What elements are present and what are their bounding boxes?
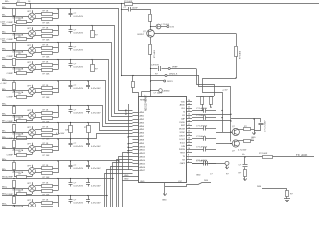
wire U5 top stub (32, 85, 34, 88)
resistor R5d comp (17, 96, 27, 99)
wire comp row ch10 (14, 194, 32, 196)
IC U20 right pin 11 (186, 135, 192, 137)
resistor R11a gain (13, 197, 16, 204)
wire IN6- row (2, 115, 29, 117)
svg-text:0.47u/16V: 0.47u/16V (74, 67, 84, 69)
wire U4 top stub (32, 61, 34, 64)
IC U20 right pin 17 (186, 156, 192, 158)
capacitor C9b (88, 161, 90, 165)
svg-text:22: 22 (188, 107, 190, 109)
svg-text:ADS1274IPAPT: ADS1274IPAPT (145, 94, 148, 111)
svg-text:R? 1K: R? 1K (43, 126, 49, 128)
wire ch3 output row (2, 42, 88, 44)
svg-text:AIN12: AIN12 (140, 152, 146, 155)
IC U20 right pin 3 (186, 108, 192, 110)
wire bus line 3 (88, 43, 133, 117)
svg-text:TX_ACK: TX_ACK (296, 153, 307, 157)
wire merge to row ch11 (53, 202, 59, 204)
resistor R9a gain (13, 163, 16, 170)
IC U20 right pin 9 (186, 128, 192, 130)
wire Q40 connections (238, 129, 243, 131)
wire U1 output lower (35, 18, 42, 20)
wire row XI to crystal area (192, 120, 231, 122)
svg-text:1uF/16V: 1uF/16V (151, 65, 159, 67)
wire comp row ch7 (14, 138, 32, 140)
op-amp U1 LPC662 (29, 13, 36, 20)
IC U20 left pin 8 (133, 136, 139, 138)
svg-text:0.47u/16V: 0.47u/16V (74, 16, 84, 18)
wire TX row (192, 156, 314, 158)
svg-text:R? 1K: R? 1K (43, 199, 49, 201)
svg-text:4.7u/16V: 4.7u/16V (56, 133, 65, 135)
wire comp stub ch2 (32, 37, 34, 39)
capacitor C31 on VREF row (151, 68, 158, 70)
svg-text:0.47u/16V: 0.47u/16V (91, 203, 101, 205)
IC U20 ADC body (139, 97, 187, 183)
IC U20 left pin 13 (133, 153, 139, 155)
node ch11 row junctions (13, 195, 14, 196)
IC U20 left pin 18 (133, 170, 139, 172)
capacitor C2a (70, 26, 72, 30)
IC U20 left pin 7 (133, 132, 139, 134)
svg-text:DRDY: DRDY (167, 81, 174, 83)
node ch3 row junctions (13, 42, 14, 43)
capacitor C51 (243, 164, 248, 166)
capacitor Cdec1 (203, 108, 205, 113)
wire IN9- row (2, 170, 29, 172)
op-amp U3 LPC662 (29, 47, 36, 54)
wire U4 output lower (35, 69, 42, 71)
wire divider mid (150, 21, 152, 30)
wire U4 output upper (35, 64, 42, 66)
node main vertical junctions (150, 68, 151, 69)
node ch2 row junctions (13, 25, 14, 26)
capacitor C8a (70, 139, 72, 143)
resistor R11b (42, 202, 53, 205)
wire U1 output upper (35, 13, 42, 15)
ground IC bottom (164, 186, 166, 192)
capacitor C5b (88, 81, 90, 85)
resistor R33 on loop (235, 47, 238, 57)
wire merge to row ch3 (53, 47, 59, 49)
resistor R51 to gnd (244, 170, 247, 177)
wire row 90 stub (151, 90, 159, 92)
node VREF terminal (168, 68, 170, 70)
svg-text:IN10-: IN10- (2, 187, 7, 189)
svg-text:0.47u/16V: 0.47u/16V (74, 88, 84, 90)
svg-text:C? 4.7u/16V: C? 4.7u/16V (265, 120, 267, 132)
svg-text:IN1-: IN1- (2, 15, 6, 17)
wire main vertical to IC (150, 54, 152, 97)
wire bus line 1 (88, 9, 133, 111)
svg-text:R? 1K: R? 1K (43, 10, 49, 12)
svg-text:COMP: COMP (7, 73, 14, 75)
ground tx filter (244, 177, 246, 181)
wire comp stub ch11 (32, 209, 34, 211)
IC U20 left pin 12 (133, 149, 139, 151)
svg-text:13: 13 (188, 138, 190, 140)
svg-text:20: 20 (188, 114, 190, 116)
wire comp row ch4 (14, 72, 32, 74)
IC U20 left pin 9 (133, 139, 139, 141)
wire comp row ch8 (14, 154, 32, 156)
wire U3 top stub (32, 44, 34, 47)
svg-text:BC857: BC857 (138, 34, 145, 36)
wire U3 output lower (35, 52, 42, 54)
svg-text:24M: 24M (257, 186, 261, 188)
capacitor C10b (88, 179, 90, 183)
resistor R5b (42, 87, 53, 90)
svg-text:IN11-: IN11- (2, 204, 7, 206)
svg-text:AGND: AGND (125, 108, 128, 115)
wire c51 to r51 (244, 167, 246, 169)
svg-text:C? 1uF/16V: C? 1uF/16V (196, 147, 208, 149)
wire merge to row ch6 (53, 112, 59, 114)
IC U20 right pin 15 (186, 149, 192, 151)
wire ch1 output row (2, 8, 88, 10)
wire top +IN rail (2, 3, 319, 5)
wire IN8- row (2, 148, 29, 150)
resistor R41 pullup (210, 97, 213, 105)
svg-text:R? 1K: R? 1K (43, 165, 49, 167)
capacitor C30 100nF branch (122, 9, 129, 11)
wire RX row cont (209, 163, 226, 165)
svg-text:+2.5V: +2.5V (222, 90, 228, 92)
svg-text:AIN11: AIN11 (140, 149, 146, 152)
IC U20 right pin 1 (186, 101, 192, 103)
node ref out terminal (167, 26, 169, 28)
svg-text:R? 10K0: R? 10K0 (240, 50, 242, 59)
svg-text:R? 1K: R? 1K (43, 182, 49, 184)
wire comp stub ch5 (32, 95, 34, 97)
svg-text:TEST: TEST (180, 153, 186, 155)
svg-text:0.47u/16V: 0.47u/16V (74, 203, 84, 205)
wire ch2 output row (2, 25, 88, 27)
node ch10 row junctions (13, 178, 14, 179)
node row 81 terminal (164, 80, 166, 82)
transistor Q40 (232, 128, 239, 135)
svg-text:R? 10K: R? 10K (43, 56, 51, 58)
svg-text:IN10+: IN10+ (2, 177, 8, 179)
wire U7 output upper (35, 129, 42, 131)
svg-text:23: 23 (188, 103, 190, 105)
capacitor C1a (70, 9, 72, 13)
svg-text:IN4+: IN4+ (2, 58, 7, 60)
svg-text:IN9-: IN9- (2, 169, 6, 171)
resistor R40 pullup (201, 97, 204, 105)
wire bus line 8 (88, 134, 133, 139)
wire merge to row ch5 (53, 88, 59, 90)
wire Q41 connections (238, 140, 243, 142)
wire comp stub ch6 (32, 119, 34, 121)
svg-text:AIN17: AIN17 (140, 169, 146, 172)
wire bus line 7 (88, 123, 133, 131)
wire U7 top stub (32, 126, 34, 129)
svg-text:CAP2: CAP2 (180, 162, 186, 165)
svg-text:GND: GND (140, 181, 145, 183)
resistor R9b (42, 167, 53, 170)
resistor R7a gain (13, 125, 16, 132)
svg-text:R? 10K: R? 10K (43, 97, 51, 99)
wire loop down to corner (236, 57, 238, 79)
resistor R43 base (244, 140, 251, 143)
svg-text:C? 100nF: C? 100nF (196, 136, 206, 138)
transistor Q30 BC857 (147, 30, 155, 38)
svg-text:IN8-: IN8- (2, 147, 6, 149)
svg-text:R? 10K: R? 10K (43, 22, 51, 24)
resistor R8a gain (13, 141, 16, 148)
svg-text:IN6-: IN6- (2, 114, 6, 116)
wire U5 output lower (35, 92, 42, 94)
IC U20 right pin 18 (186, 159, 192, 161)
wire IN2- row (2, 33, 29, 35)
svg-text:11: 11 (188, 144, 190, 146)
resistor R6b (42, 112, 53, 115)
wire loop left run (203, 79, 237, 101)
wire pullup rail (196, 96, 214, 98)
node comp junction ch11 (13, 205, 14, 206)
svg-text:10K: 10K (65, 130, 69, 132)
resistor R5a gain (13, 83, 16, 90)
svg-text:C? 1uF/16V: C? 1uF/16V (196, 108, 208, 110)
node RESET branch tap (132, 75, 133, 76)
IC U20 right pin 2 (186, 104, 192, 106)
wire RX row (192, 163, 205, 165)
svg-text:GND: GND (162, 200, 167, 202)
wire bus line 2 (88, 26, 133, 114)
IC U20 right pin 19 (186, 162, 192, 164)
capacitor Cdec4 (203, 136, 205, 141)
node C6b junction (87, 105, 88, 106)
wire comp stub ch9 (32, 175, 34, 177)
svg-text:2.5V: 2.5V (170, 26, 175, 28)
wire merge to row ch7 (53, 129, 59, 131)
wire row to transistor q2 (216, 143, 232, 145)
resistor R2b (42, 30, 53, 33)
IC U20 left pin 1 (133, 112, 139, 114)
svg-text:GND: GND (124, 175, 129, 177)
IC U20 left pin 5 (133, 125, 139, 127)
resistor R7c (42, 134, 53, 137)
wire U11 output lower (35, 207, 42, 209)
node comp junction ch7 (13, 132, 14, 133)
wire comp row ch5 (14, 96, 32, 98)
svg-text:C? 1uF/16V: C? 1uF/16V (196, 126, 208, 128)
node comp junction ch10 (13, 188, 14, 189)
svg-text:C? 100nF: C? 100nF (154, 93, 164, 95)
svg-text:SCLK: SCLK (180, 142, 186, 144)
resistor R8b (42, 145, 53, 148)
svg-text:IN5+: IN5+ (2, 79, 7, 81)
node top-rail junctions (29, 3, 30, 4)
IC U20 left pin 11 (133, 146, 139, 148)
capacitor C11b (88, 196, 90, 200)
wire merge to row ch2 (53, 30, 59, 32)
svg-text:IN7-: IN7- (2, 131, 6, 133)
IC U20 left pin 15 (133, 160, 139, 162)
svg-text:R? 1K: R? 1K (43, 27, 49, 29)
svg-text:DRDY: DRDY (179, 136, 185, 138)
svg-text:0.47u/16V: 0.47u/16V (74, 186, 84, 188)
wire U10 top stub (32, 182, 34, 185)
capacitor Cdec3 (203, 126, 205, 131)
svg-text:/-15V: /-15V (0, 22, 6, 24)
svg-text:+/-15V: +/-15V (0, 83, 7, 85)
svg-text:0.47u/16V: 0.47u/16V (91, 186, 101, 188)
wire AGND pin stubs (128, 136, 133, 138)
node C10b junction (87, 178, 88, 179)
svg-text:AIN14: AIN14 (140, 159, 146, 162)
capacitor C50 (205, 161, 207, 166)
node ch11 dot (106, 195, 107, 196)
svg-text:R? 100R: R? 100R (124, 1, 133, 3)
svg-text:XO: XO (182, 115, 185, 117)
capacitor C5a (70, 81, 72, 85)
svg-text:COMP: COMP (7, 22, 14, 24)
wire comp row ch11 (14, 210, 32, 212)
svg-text:AGND: AGND (164, 90, 171, 93)
svg-text:8: 8 (188, 155, 189, 157)
svg-text:/-15V: /-15V (0, 39, 6, 41)
svg-text:COMP: COMP (7, 56, 14, 58)
svg-text:R? 10K: R? 10K (43, 73, 51, 75)
wire staircase line 1 (123, 153, 133, 208)
svg-text:14: 14 (188, 134, 190, 136)
resistor R1c (42, 18, 53, 21)
node R4e junction (91, 59, 92, 60)
resistor R3a gain (13, 43, 16, 50)
IC U20 right pin 5 (186, 115, 192, 117)
wire IN1- row (2, 16, 29, 18)
resistor R6c (42, 117, 53, 120)
IC U20 left pin 2 (133, 115, 139, 117)
wire RESET branch vertical (133, 76, 139, 98)
resistor R4e hanging (92, 60, 94, 66)
wire U1 top stub (32, 10, 34, 13)
node comp junction ch1 (13, 16, 14, 17)
wire bus line 4 (88, 60, 133, 121)
resistor R9c (42, 172, 53, 175)
svg-text:0.47u/16V: 0.47u/16V (74, 168, 84, 170)
IC U20 right pin 13 (186, 142, 192, 144)
wire comp row ch2 (14, 38, 32, 40)
IC U20 right pin 6 (186, 118, 192, 120)
IC U20 right pin 4 (186, 111, 192, 113)
resistor R10b (42, 185, 53, 188)
wire U2 output upper (35, 30, 42, 32)
svg-text:IN9+: IN9+ (2, 159, 7, 161)
svg-text:19: 19 (188, 117, 190, 119)
node comp junction ch5 (13, 90, 14, 91)
resistor R1 input series (17, 3, 26, 6)
wire bus line 6 (88, 106, 133, 127)
svg-text:18: 18 (188, 120, 190, 122)
wire rail drop vertical x121.5 (121, 4, 123, 76)
capacitor Cdec2 (203, 115, 205, 120)
svg-text:DIN/CLK: DIN/CLK (169, 74, 178, 76)
wire merge to row ch8 (53, 146, 59, 148)
resistor R7f divider a (70, 123, 72, 126)
svg-text:R? 1K: R? 1K (43, 61, 49, 63)
IC U20 bottom pin (164, 183, 166, 186)
svg-text:IN1+: IN1+ (5, 1, 10, 3)
svg-text:0.47u/16V: 0.47u/16V (74, 33, 84, 35)
resistor R5c (42, 92, 53, 95)
capacitor C4a (70, 60, 72, 64)
node right rails crossings (221, 110, 222, 111)
svg-text:COMP: COMP (7, 97, 14, 99)
svg-text:R? 1K: R? 1K (43, 85, 49, 87)
wire IN7- row (2, 132, 29, 134)
wire IN3- row (2, 50, 29, 52)
svg-text:16: 16 (188, 127, 190, 129)
node divider mid (150, 26, 151, 27)
wire comp row ch1 (14, 22, 32, 24)
capacitor Cdec5 (203, 147, 205, 152)
IC U20 left pin 17 (133, 166, 139, 168)
capacitor Cdec6 (203, 161, 205, 166)
node DIN terminal (165, 75, 167, 77)
wire VREF row to right (170, 68, 196, 70)
svg-text:DIN: DIN (182, 146, 186, 148)
wire U2 output lower (35, 35, 42, 37)
wire ch9 row extension (88, 160, 119, 162)
node ch1 row junctions (13, 8, 14, 9)
wire ch9 output row (2, 160, 88, 162)
wire staircase line 5 (111, 167, 133, 208)
resistor R2c (42, 35, 53, 38)
resistor R30 100R on rail (125, 3, 133, 6)
IC U20 top pin a (141, 92, 143, 98)
svg-text:R? 1K: R? 1K (43, 44, 49, 46)
node AGND junctions (127, 136, 128, 137)
wire U9 output lower (35, 172, 42, 174)
node ch9 row junctions (13, 160, 14, 161)
resistor R7b (42, 129, 53, 132)
wire U8 output upper (35, 146, 42, 148)
svg-text:0.47u/16V: 0.47u/16V (91, 168, 101, 170)
svg-text:17: 17 (188, 124, 190, 126)
svg-text:0.47u/16V: 0.47u/16V (91, 146, 101, 148)
svg-text:IN11+: IN11+ (2, 194, 8, 196)
wire staircase line 4 (113, 163, 133, 208)
svg-text:24: 24 (188, 100, 190, 102)
node TX junction (244, 156, 245, 157)
node ch4 row junctions (13, 59, 14, 60)
wire U9 top stub (32, 165, 34, 168)
wire comp stub ch8 (32, 153, 34, 155)
resistor R4a gain (13, 59, 16, 66)
ground J50 (226, 165, 228, 169)
svg-text:R? 100R: R? 100R (259, 153, 268, 155)
wire IN5- row (2, 90, 29, 92)
wire staircase line 3 (117, 160, 133, 208)
wire U10 output lower (35, 190, 42, 192)
resistor R9d comp (17, 176, 27, 179)
wire U6 output lower (35, 117, 42, 119)
wire AGND vertical (128, 104, 130, 170)
svg-text:IN5-: IN5- (2, 89, 6, 91)
svg-text:IN6+: IN6+ (2, 104, 7, 106)
resistor R6d comp (17, 120, 27, 123)
wire Q30 collector long run (154, 33, 236, 35)
resistor R10a gain (13, 181, 16, 188)
resistor R2e hanging (92, 26, 94, 32)
wire row to transistor q1 (216, 132, 232, 134)
wire DIN corner down right (199, 76, 231, 108)
resistor R32 emitter (149, 45, 152, 55)
resistor R3d comp (17, 55, 27, 58)
